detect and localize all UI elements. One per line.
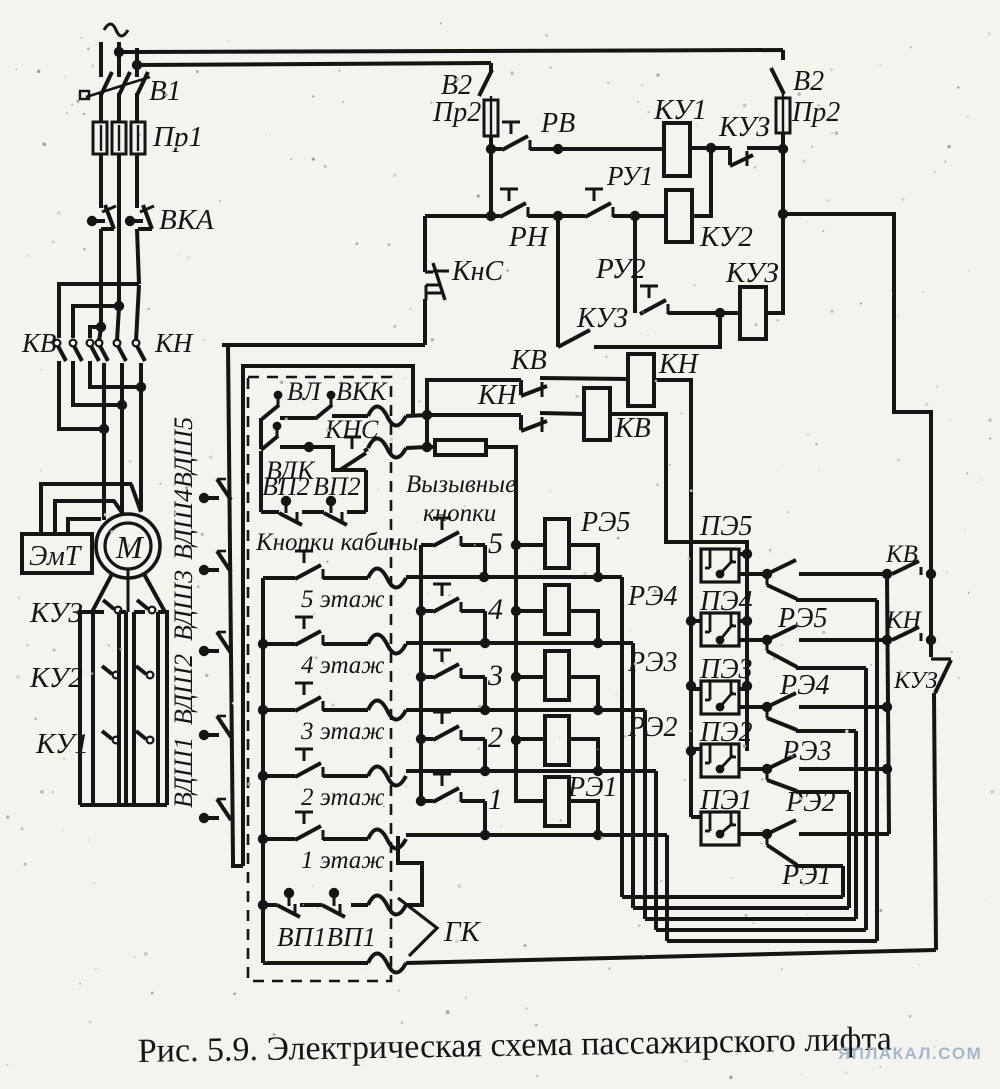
wire coil РЭ1 output bbox=[569, 801, 598, 835]
output crossover wire to x104 bbox=[59, 361, 109, 434]
label EmT bbox=[29, 541, 83, 572]
label ВДШ5 bbox=[169, 417, 198, 488]
crossover wire phase2 to KB pole2 bbox=[73, 301, 124, 338]
wire ПЭ5 output bbox=[739, 569, 772, 579]
svg-text:КН: КН bbox=[477, 380, 519, 411]
motor rotor lead centre bbox=[127, 569, 130, 612]
wire coil РЭ4 output bbox=[569, 611, 598, 643]
call button floor 5 bbox=[421, 518, 489, 582]
svg-text:ВП1ВП1: ВП1ВП1 bbox=[277, 922, 376, 952]
bundle wire 4 horizontal bbox=[633, 906, 849, 910]
switch VDK bbox=[261, 422, 281, 450]
svg-text:ВДШ5: ВДШ5 bbox=[169, 417, 198, 488]
junction row floor 4 bbox=[406, 638, 633, 648]
svg-text:РЭ4: РЭ4 bbox=[627, 581, 677, 612]
svg-text:5: 5 bbox=[488, 527, 503, 560]
label KN interlock bbox=[477, 380, 519, 411]
phase wires B1 to fuses bbox=[101, 93, 137, 122]
bundle wire 4 left riser bbox=[631, 643, 635, 908]
svg-text:КНС: КНС bbox=[324, 415, 379, 444]
label РЭ5 right bbox=[777, 603, 827, 634]
wire VKK to cable row1 bbox=[332, 414, 368, 418]
wire KN contact to KV coil bbox=[540, 413, 584, 414]
wire RU2 to KU3 coil bbox=[668, 308, 740, 318]
cab button floor 2 этаж bbox=[263, 749, 368, 777]
label РЭ2 coil bbox=[627, 712, 677, 743]
switch VP1 second bbox=[300, 888, 345, 917]
label VKA bbox=[159, 204, 214, 236]
arrow GK bbox=[398, 898, 437, 956]
bottom cab wire bbox=[263, 961, 368, 965]
coil KU1 bbox=[664, 123, 690, 176]
wire feed to coil РЭ3 bbox=[516, 675, 545, 679]
top control feed wire lower bbox=[137, 63, 491, 65]
coil KU2 bbox=[666, 190, 692, 242]
svg-text:КнС: КнС bbox=[451, 256, 503, 287]
coil РЭ4 bbox=[545, 585, 569, 634]
wire contact down floor 2 bbox=[796, 790, 849, 794]
contact RU1 bbox=[585, 189, 613, 217]
call button bus bbox=[416, 545, 426, 806]
switch VL bbox=[261, 391, 282, 449]
shaft switch ВДШ3 bbox=[199, 632, 231, 656]
bundle wire 2 left riser bbox=[654, 771, 658, 930]
svg-text:Пр1: Пр1 bbox=[152, 121, 203, 153]
switch B1 bbox=[80, 72, 150, 99]
cab button bus bbox=[258, 578, 268, 963]
label RU2 bbox=[595, 253, 646, 285]
svg-text:ВКА: ВКА bbox=[159, 204, 214, 236]
fuse Pr2 right bbox=[776, 94, 790, 149]
floor selector ПЭ5 bbox=[701, 549, 739, 582]
contact KN right bbox=[887, 627, 936, 645]
bundle wire right riser x877 bbox=[875, 600, 879, 941]
limit switch VKA contact 1 bbox=[87, 205, 116, 229]
svg-text:КН: КН bbox=[658, 349, 700, 380]
wire VP1 to cable bbox=[351, 903, 368, 907]
label 2 этаж bbox=[301, 784, 385, 811]
label ПЭ1 bbox=[699, 785, 753, 816]
junction row floor 3 bbox=[406, 705, 645, 715]
svg-text:РЭ5: РЭ5 bbox=[580, 507, 630, 538]
phase wires fuses to VKA bbox=[101, 154, 137, 231]
bottom return wire left segment bbox=[0, 0, 1, 1]
wire contact to KV-KN bus floor 5 bbox=[799, 569, 892, 579]
contact KU1 right bbox=[136, 731, 153, 743]
label ВДШ1 bbox=[169, 737, 198, 808]
coil РЭ1 bbox=[545, 777, 569, 826]
bundle wire 2 horizontal bbox=[656, 928, 866, 932]
svg-text:ВП2: ВП2 bbox=[262, 472, 310, 501]
bundle wire right riser x856 bbox=[854, 731, 858, 919]
wire contact to KV-KN bus floor 3 bbox=[799, 702, 892, 712]
KV-KN collector bus bbox=[887, 574, 889, 834]
svg-text:Вызывные: Вызывные bbox=[406, 471, 516, 498]
wire VL down to VDK bbox=[259, 418, 263, 449]
svg-text:КВ: КВ bbox=[614, 413, 651, 444]
wire safety row to KV contact row bbox=[422, 380, 521, 452]
contact KU2 left bbox=[102, 666, 119, 678]
selector contact up floor 4 bbox=[767, 626, 796, 640]
label KNS bbox=[324, 415, 379, 444]
svg-text:ЭмТ: ЭмТ bbox=[29, 541, 83, 572]
resistor bbox=[435, 440, 486, 455]
label RN bbox=[508, 221, 550, 253]
svg-text:РН: РН bbox=[508, 221, 550, 253]
wire contact to KV-KN bus floor 4 bbox=[799, 635, 892, 645]
floor selector ПЭ2 bbox=[701, 744, 739, 777]
contact RN bbox=[500, 189, 528, 217]
motor rotor lead right bbox=[144, 574, 165, 612]
rotor ladder frame bbox=[80, 612, 167, 805]
svg-text:ВЛ: ВЛ bbox=[287, 377, 322, 406]
call button floor 4 bbox=[421, 584, 490, 648]
contact KU1 left bbox=[102, 731, 119, 743]
wire feed to coil РЭ5 bbox=[516, 543, 545, 547]
svg-text:1 этаж: 1 этаж bbox=[301, 847, 385, 874]
selector contact down floor 2 bbox=[767, 769, 797, 791]
wire RN to RU1 bbox=[528, 211, 585, 221]
wire KN coil output bbox=[654, 378, 691, 382]
label РЭ1 coil bbox=[567, 772, 617, 803]
label GK bbox=[443, 916, 481, 948]
bundle wire right riser x849 bbox=[847, 792, 851, 908]
selector contact down floor 4 bbox=[767, 640, 797, 667]
wire KnS branch bbox=[423, 216, 427, 345]
label digit 2 bbox=[488, 721, 503, 754]
svg-text:1: 1 bbox=[488, 783, 503, 816]
switch VP2 first bbox=[261, 496, 302, 525]
label KV right bbox=[885, 541, 918, 568]
svg-text:КВ: КВ bbox=[510, 345, 547, 376]
selector contact down floor 1 bbox=[767, 834, 797, 865]
contact KV right bbox=[887, 561, 936, 579]
label KN right bbox=[885, 607, 923, 634]
label call buttons line1 bbox=[406, 471, 516, 498]
svg-text:ВП2: ВП2 bbox=[313, 472, 361, 501]
floor selector ПЭ1 bbox=[701, 812, 739, 845]
label KN contactor bbox=[154, 328, 194, 358]
svg-text:ПЭ2: ПЭ2 bbox=[699, 717, 753, 748]
brake EmT box bbox=[22, 534, 92, 573]
coil РЭ5 bbox=[545, 519, 569, 568]
label VKK bbox=[336, 377, 388, 406]
label ВДШ2 bbox=[169, 654, 198, 725]
label KB contactor bbox=[21, 328, 56, 358]
svg-text:ВДШ1: ВДШ1 bbox=[169, 737, 198, 808]
cable wavy safety row bbox=[368, 407, 427, 426]
wire riser KU3 aux bbox=[556, 216, 560, 347]
button KNS bbox=[340, 437, 366, 470]
svg-text:КУЗ: КУЗ bbox=[29, 597, 83, 629]
label KN coil bbox=[658, 349, 700, 380]
stub ПЭ2 to left bus bbox=[691, 747, 701, 751]
brake tap wire 3 bbox=[68, 519, 101, 534]
label РЭ3 coil bbox=[627, 647, 677, 678]
contactor KB contacts bbox=[54, 340, 99, 361]
bundle wire right riser x843 bbox=[841, 866, 845, 897]
junction row floor 2 bbox=[406, 766, 656, 776]
coil РЭ2 bbox=[545, 716, 569, 765]
wire contact down floor 1 bbox=[796, 864, 843, 868]
contact KU3 right NC bbox=[931, 659, 951, 693]
label РЭ4 coil bbox=[627, 581, 677, 612]
label VP2 first bbox=[262, 472, 310, 501]
svg-text:КУЗ: КУЗ bbox=[718, 112, 770, 143]
svg-text:КУ1: КУ1 bbox=[653, 94, 707, 126]
label KU3 coil bbox=[725, 257, 779, 289]
motor rotor lead left bbox=[92, 574, 112, 612]
label РЭ1 right bbox=[781, 860, 831, 891]
contactor KN contacts bbox=[96, 340, 145, 361]
limit switch VKA contact 2 bbox=[125, 205, 154, 229]
label 4 этаж bbox=[301, 652, 385, 679]
wire KN contact row bbox=[427, 413, 521, 417]
PE right bus bbox=[742, 549, 752, 751]
label РЭ3 right bbox=[781, 736, 831, 767]
selector contact up floor 5 bbox=[767, 560, 796, 574]
switch VP1 first bbox=[277, 888, 300, 917]
cab button floor 3 этаж bbox=[263, 683, 368, 711]
cable wavy bottom row bbox=[368, 954, 406, 973]
svg-text:РЭ2: РЭ2 bbox=[785, 787, 835, 818]
svg-text:ВДШ4: ВДШ4 bbox=[169, 489, 198, 560]
stub ПЭ4 to both buses bbox=[691, 619, 747, 623]
label KU1 rotor bbox=[35, 728, 89, 760]
label ВДШ4 bbox=[169, 489, 198, 560]
svg-text:РУ1: РУ1 bbox=[606, 161, 653, 191]
call button floor 3 bbox=[421, 650, 490, 715]
svg-text:5 этаж: 5 этаж bbox=[301, 586, 385, 613]
bundle wire 3 horizontal bbox=[645, 917, 856, 921]
switch B2 right bbox=[771, 50, 784, 94]
floor selector ПЭ3 bbox=[701, 681, 739, 714]
AC source symbol ~ bbox=[104, 24, 128, 36]
label KV interlock bbox=[510, 345, 547, 376]
junction row floor 5 bbox=[406, 572, 622, 582]
label VL bbox=[287, 377, 322, 406]
label ВДШ3 bbox=[169, 570, 198, 641]
wire KU3 coil to right bus bbox=[766, 216, 783, 313]
svg-text:РЭ3: РЭ3 bbox=[781, 736, 831, 767]
fuse Pr2 left bbox=[484, 96, 498, 149]
svg-text:ПЭ5: ПЭ5 bbox=[699, 511, 753, 542]
label 5 этаж bbox=[301, 586, 385, 613]
label РЭ2 right bbox=[785, 787, 835, 818]
contact RV bbox=[491, 122, 530, 150]
call button floor 1 bbox=[421, 774, 490, 840]
bundle wire 5 horizontal bbox=[622, 895, 843, 899]
wire RU1 to KU2 coil bbox=[613, 211, 666, 221]
far right bus upper bbox=[929, 574, 933, 657]
label VP1VP1 bbox=[277, 922, 376, 952]
PE left bus bbox=[686, 378, 696, 817]
contact RU2 bbox=[640, 286, 668, 314]
motor feed wire phase A bbox=[102, 363, 106, 520]
label РЭ5 coil bbox=[580, 507, 630, 538]
brake tap wire 1 bbox=[41, 484, 141, 534]
coil KU3 bbox=[740, 287, 766, 339]
svg-text:КН: КН bbox=[885, 607, 923, 634]
cable wavy cab row 3 этаж bbox=[368, 701, 406, 720]
wire KV contact to KN coil bbox=[540, 378, 628, 379]
riser KN pole4 to phase1 node bbox=[99, 328, 101, 341]
label KU1 coil bbox=[653, 94, 707, 126]
cab button floor 5 этаж bbox=[263, 551, 368, 579]
riser KN pole5 to phase2 node bbox=[117, 307, 119, 341]
feeder wire top right bbox=[783, 214, 931, 574]
svg-text:ЯПЛАКАЛ.COM: ЯПЛАКАЛ.COM bbox=[838, 1044, 982, 1063]
svg-text:2: 2 bbox=[488, 721, 503, 754]
svg-text:РУ2: РУ2 bbox=[595, 253, 646, 285]
label KV coil bbox=[614, 413, 651, 444]
caption bbox=[138, 1021, 893, 1070]
svg-text:кнопки: кнопки bbox=[423, 500, 496, 527]
watermark bbox=[838, 1044, 982, 1063]
svg-text:2 этаж: 2 этаж bbox=[301, 784, 385, 811]
VDSh return line bbox=[243, 366, 413, 866]
svg-text:РВ: РВ bbox=[540, 108, 575, 139]
label RU1 bbox=[606, 161, 653, 191]
switch VP2 second bbox=[302, 496, 347, 525]
svg-text:КУ2: КУ2 bbox=[699, 221, 753, 253]
cable wavy cab row 1 этаж bbox=[368, 830, 406, 849]
contact KU3 right bbox=[137, 600, 155, 613]
bundle wire 3 left riser bbox=[643, 710, 647, 919]
svg-text:М: М bbox=[115, 529, 145, 565]
wire contact down floor 4 bbox=[796, 666, 866, 670]
button KnS bbox=[425, 263, 449, 300]
label РЭ4 right bbox=[779, 670, 829, 701]
wire KU3 aux to KU3 coil node bbox=[594, 313, 720, 347]
wire feed to coil РЭ4 bbox=[516, 609, 545, 613]
svg-text:Пр2: Пр2 bbox=[432, 97, 481, 128]
wire VP2 to KNS riser bbox=[340, 470, 366, 512]
label 3 этаж bbox=[300, 718, 385, 745]
VDSh collector line bbox=[228, 345, 243, 866]
wire resistor row bbox=[427, 445, 435, 449]
contact KU2 right bbox=[136, 666, 153, 678]
coil KV bbox=[584, 388, 610, 440]
wire feed to coil РЭ2 bbox=[516, 737, 545, 741]
motor M bbox=[96, 514, 160, 578]
cable wavy cab row 5 этаж bbox=[368, 569, 406, 588]
cable wavy cab row 4 этаж bbox=[368, 635, 406, 654]
contact KU3 left bbox=[103, 600, 121, 613]
bundle wire 5 left riser bbox=[620, 577, 624, 897]
label Pr1 bbox=[152, 121, 203, 153]
switch B2 left bbox=[479, 63, 492, 96]
cable wavy cab row 2 этаж bbox=[368, 767, 406, 786]
svg-text:КУЗ: КУЗ bbox=[576, 303, 628, 334]
coil РЭ3 bbox=[545, 651, 569, 700]
wire KV coil output bbox=[610, 414, 747, 554]
far right bus lower bbox=[934, 693, 936, 950]
cab button floor 1 этаж bbox=[263, 812, 368, 840]
selector contact up floor 1 bbox=[767, 820, 796, 834]
wire coil РЭ5 output bbox=[569, 545, 598, 577]
label Pr2 right bbox=[791, 97, 840, 128]
label ПЭ5 bbox=[699, 511, 753, 542]
svg-text:КУ2: КУ2 bbox=[29, 662, 83, 694]
svg-text:КУЗ: КУЗ bbox=[725, 257, 779, 289]
wire riser to RU2 bbox=[633, 216, 637, 313]
svg-text:РЭ1: РЭ1 bbox=[567, 772, 617, 803]
coil KN bbox=[628, 354, 654, 406]
shaft switch ВДШ2 bbox=[199, 716, 231, 740]
wire contact down floor 3 bbox=[796, 729, 856, 733]
VP2 rail bbox=[259, 451, 263, 512]
wire KNS loop bbox=[309, 447, 340, 470]
label call buttons line2 bbox=[423, 500, 496, 527]
crossover wire phase1 to KB pole3 bbox=[90, 322, 106, 338]
label RV bbox=[540, 108, 575, 139]
svg-text:ВДШ3: ВДШ3 bbox=[169, 570, 198, 641]
label VDK bbox=[266, 456, 316, 485]
shaft switch ВДШ1 bbox=[199, 799, 231, 823]
label KU3 aux bbox=[576, 303, 628, 334]
wire row1 KU1 to KU3 bbox=[690, 143, 730, 153]
shaft switch ВДШ4 bbox=[199, 551, 231, 575]
label KU2 coil bbox=[699, 221, 753, 253]
bottom return wire bbox=[406, 950, 936, 963]
svg-text:ГК: ГК bbox=[443, 916, 481, 948]
wire VP1 row bbox=[263, 903, 277, 907]
svg-text:ВКК: ВКК bbox=[336, 377, 388, 406]
selector contact down floor 3 bbox=[767, 707, 797, 730]
selector contact down floor 5 bbox=[767, 574, 797, 599]
motor feed wire phase B bbox=[120, 363, 124, 513]
label cab buttons bbox=[255, 529, 418, 556]
output crossover wire to x141 bbox=[90, 361, 146, 392]
label B1 bbox=[149, 75, 181, 107]
selector contact up floor 2 bbox=[767, 755, 796, 769]
stub ПЭ1 to left bus bbox=[691, 815, 701, 819]
wire KnS branch horizontal bbox=[222, 343, 425, 347]
label KU3 right bbox=[893, 668, 938, 694]
brake tap wire 2 bbox=[55, 501, 123, 534]
shaft switch ВДШ5 bbox=[199, 479, 231, 503]
bundle wire 1 horizontal bbox=[667, 939, 877, 943]
wire coil РЭ3 output bbox=[569, 677, 598, 710]
wire row2 left bbox=[425, 214, 500, 218]
label KnS bbox=[451, 256, 503, 287]
bundle wire right riser x866 bbox=[864, 668, 868, 930]
label KU3 rotor bbox=[29, 597, 83, 629]
label KU3 top bbox=[718, 112, 770, 143]
stub PE5 to right bus bbox=[739, 552, 747, 556]
phase wire 1 top stub bbox=[99, 42, 103, 77]
top control feed wire upper bbox=[119, 50, 783, 52]
svg-text:КУ1: КУ1 bbox=[35, 728, 89, 760]
wire VL to VKK bbox=[280, 416, 315, 420]
wire KU2 coil to row1 bbox=[692, 149, 711, 216]
wire contact down floor 5 bbox=[796, 598, 877, 602]
svg-text:3 этаж: 3 этаж bbox=[300, 718, 385, 745]
svg-text:4: 4 bbox=[488, 593, 503, 626]
wire RE1 row to bus bottom bbox=[799, 832, 889, 836]
call button floor 2 bbox=[421, 712, 490, 776]
svg-text:ВДШ2: ВДШ2 bbox=[169, 654, 198, 725]
bundle wire 1 left riser bbox=[665, 835, 669, 941]
stub ПЭ3 to both buses bbox=[691, 687, 747, 691]
label B2 right bbox=[793, 66, 824, 97]
svg-text:ПЭ1: ПЭ1 bbox=[699, 785, 753, 816]
label 1 этаж bbox=[301, 847, 385, 874]
svg-text:4 этаж: 4 этаж bbox=[301, 652, 385, 679]
label digit 4 bbox=[488, 593, 503, 626]
riser KN pole6 to phase3 node bbox=[136, 285, 139, 341]
